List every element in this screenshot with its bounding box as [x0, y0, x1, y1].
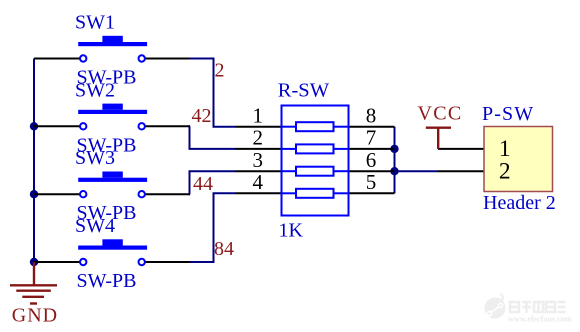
svg-text:VCC: VCC	[418, 103, 463, 125]
svg-text:www.elecfans.com: www.elecfans.com	[508, 315, 572, 324]
svg-text:84: 84	[214, 238, 234, 260]
svg-text:2: 2	[215, 60, 225, 82]
svg-text:1K: 1K	[279, 220, 304, 242]
svg-text:6: 6	[366, 148, 377, 172]
svg-text:4: 4	[253, 170, 264, 194]
svg-text:SW-PB: SW-PB	[77, 270, 137, 292]
svg-text:1: 1	[253, 104, 264, 128]
svg-text:2: 2	[253, 126, 264, 150]
svg-text:3: 3	[253, 148, 264, 172]
svg-text:Header 2: Header 2	[483, 192, 556, 214]
svg-text:42: 42	[192, 105, 212, 127]
svg-text:2: 2	[499, 159, 511, 185]
svg-text:8: 8	[366, 104, 377, 128]
svg-text:5: 5	[366, 170, 377, 194]
svg-text:R-SW: R-SW	[278, 80, 330, 102]
svg-text:SW2: SW2	[75, 79, 115, 101]
svg-text:7: 7	[366, 126, 377, 150]
svg-text:SW4: SW4	[75, 215, 115, 237]
svg-text:P-SW: P-SW	[482, 103, 534, 125]
svg-text:44: 44	[193, 173, 213, 195]
svg-text:SW3: SW3	[75, 147, 115, 169]
svg-text:SW1: SW1	[75, 12, 115, 34]
svg-text:GND: GND	[12, 305, 58, 327]
